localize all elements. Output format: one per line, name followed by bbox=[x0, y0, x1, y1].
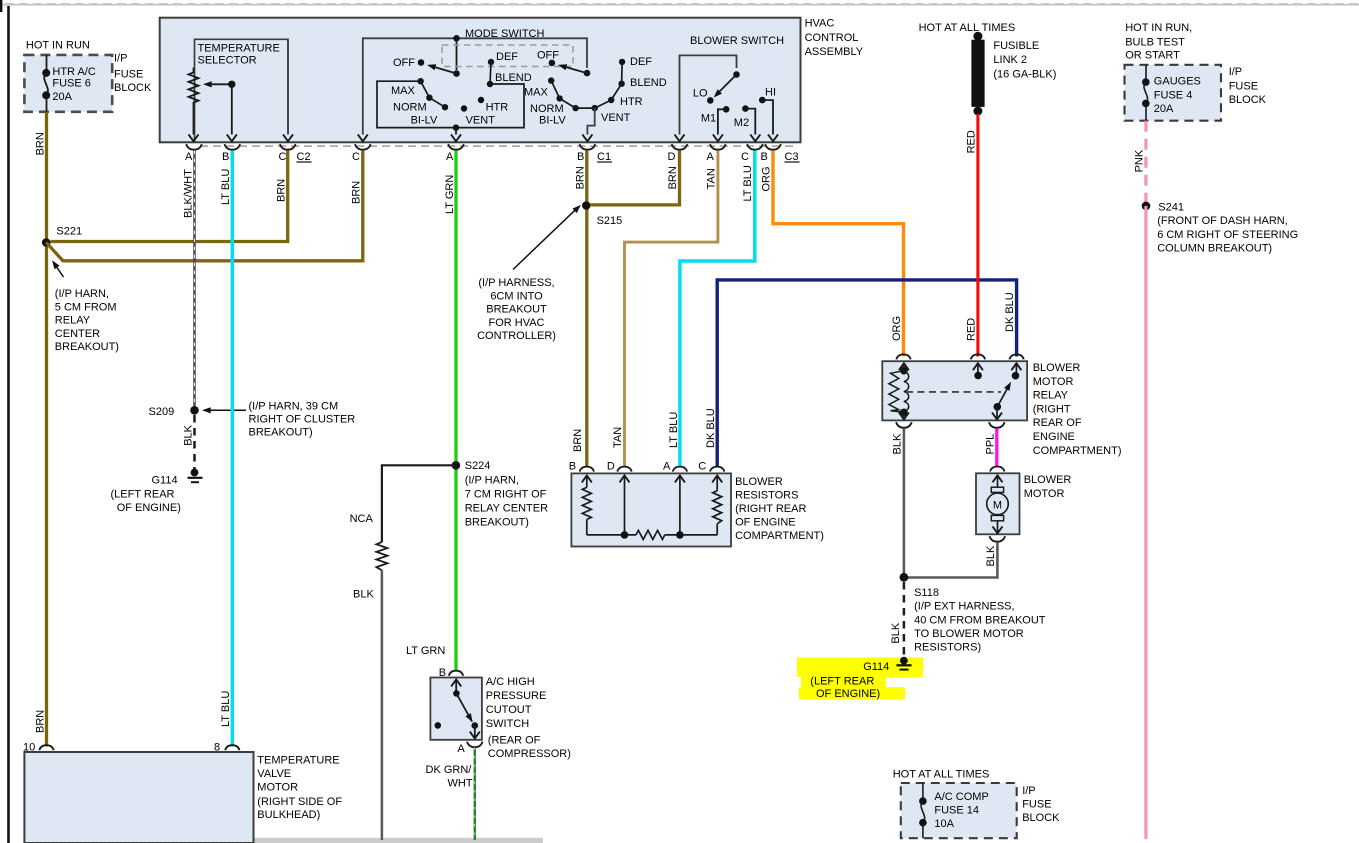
svg-text:BLEND: BLEND bbox=[495, 72, 532, 84]
svg-text:TEMPERATURE: TEMPERATURE bbox=[198, 43, 280, 55]
svg-text:(LEFT REAR: (LEFT REAR bbox=[111, 489, 175, 501]
svg-text:A: A bbox=[707, 151, 715, 163]
mode switch wafer 1 contacts bbox=[391, 78, 508, 127]
svg-text:FUSIBLE: FUSIBLE bbox=[993, 40, 1039, 52]
svg-text:LT BLU: LT BLU bbox=[742, 165, 754, 201]
wire BLK dashed S209 to G114 bbox=[193, 415, 196, 469]
svg-text:M2: M2 bbox=[734, 117, 749, 129]
svg-text:TEMPERATURE: TEMPERATURE bbox=[257, 755, 339, 767]
wire BRN S221 to pin C of C2 bbox=[51, 151, 288, 242]
svg-text:C1: C1 bbox=[597, 151, 611, 163]
svg-text:TAN: TAN bbox=[706, 168, 718, 189]
svg-text:10A: 10A bbox=[934, 818, 954, 830]
HVAC control assembly box bbox=[160, 18, 801, 143]
svg-text:TAN: TAN bbox=[612, 427, 624, 448]
splice S241 bbox=[1142, 201, 1184, 213]
fusible link caption bbox=[993, 40, 1056, 81]
svg-text:ORG: ORG bbox=[760, 166, 772, 191]
svg-text:BREAKOUT): BREAKOUT) bbox=[249, 427, 313, 439]
svg-text:PNK: PNK bbox=[1134, 149, 1146, 172]
wire ORG pin B to relay bbox=[773, 151, 904, 357]
svg-text:LT BLU: LT BLU bbox=[668, 412, 680, 448]
blower motor relay box bbox=[882, 361, 1027, 420]
ground G114 (right) bbox=[863, 657, 911, 673]
svg-text:BLK: BLK bbox=[353, 589, 374, 601]
blower motor caption bbox=[1024, 474, 1072, 500]
fuse block A/C comp dashed box bbox=[901, 783, 1017, 838]
svg-text:VALVE: VALVE bbox=[257, 768, 291, 780]
svg-text:CENTER: CENTER bbox=[55, 328, 100, 340]
connector names C2 C1 C3 bbox=[297, 151, 800, 163]
svg-text:S241: S241 bbox=[1158, 201, 1184, 213]
mode switch dashed OFF box bbox=[442, 45, 573, 67]
svg-text:G114: G114 bbox=[863, 661, 889, 673]
fuse GAUGES FUSE 4 20A bbox=[1142, 65, 1201, 121]
svg-text:MOTOR: MOTOR bbox=[1024, 488, 1065, 500]
wire LT BLU pin B down to temp valve motor bbox=[231, 151, 235, 747]
blower resistors internals bbox=[582, 476, 722, 540]
svg-text:RELAY: RELAY bbox=[55, 315, 91, 327]
S224 caption bbox=[465, 475, 548, 529]
svg-text:VENT: VENT bbox=[601, 112, 631, 124]
relay pin cups (top) bbox=[896, 354, 1024, 359]
svg-text:BLK: BLK bbox=[890, 622, 902, 643]
svg-text:M1: M1 bbox=[701, 112, 716, 124]
svg-text:CONTROL: CONTROL bbox=[805, 32, 859, 44]
svg-text:LT GRN: LT GRN bbox=[444, 175, 456, 214]
svg-text:C: C bbox=[352, 151, 360, 163]
wire BRN fuse6 down left side bbox=[45, 112, 48, 747]
S209 annotation arrow bbox=[202, 407, 246, 413]
temperature selector sub-box bbox=[195, 39, 289, 142]
label HOT IN RUN BULB TEST OR START bbox=[1125, 22, 1192, 62]
svg-text:NORM: NORM bbox=[393, 102, 427, 114]
svg-text:BULB TEST: BULB TEST bbox=[1125, 37, 1185, 49]
svg-text:RIGHT OF CLUSTER: RIGHT OF CLUSTER bbox=[249, 414, 356, 426]
svg-text:A: A bbox=[446, 151, 454, 163]
svg-text:MOTOR: MOTOR bbox=[1033, 376, 1074, 388]
temp selector right-side wire to pin C bbox=[283, 39, 293, 141]
svg-text:CUTOUT: CUTOUT bbox=[486, 704, 532, 716]
label I/P FUSE BLOCK (top right) bbox=[1229, 66, 1267, 106]
svg-text:DEF: DEF bbox=[496, 51, 518, 63]
svg-text:BI-LV: BI-LV bbox=[411, 115, 438, 127]
svg-text:BLOCK: BLOCK bbox=[1022, 812, 1060, 824]
wire BLK/WHT pin A down to S209 bbox=[193, 151, 196, 410]
svg-text:(LEFT REAR: (LEFT REAR bbox=[810, 676, 874, 688]
S241 caption bbox=[1157, 215, 1298, 255]
relay switch blade to DK BLU contact bbox=[992, 363, 1021, 419]
svg-text:BRN: BRN bbox=[351, 181, 363, 204]
S215 annotation arrow bbox=[513, 203, 583, 270]
wire PNK dashed gauges fuse to S241 bbox=[1144, 121, 1147, 202]
fuse A/C COMP FUSE 14 10A bbox=[919, 783, 989, 838]
svg-text:20A: 20A bbox=[1154, 103, 1174, 115]
wire LT BLU pin C to blower resistors pin A bbox=[680, 151, 755, 468]
svg-text:HTR: HTR bbox=[620, 96, 643, 108]
blower resistors caption bbox=[735, 476, 824, 542]
svg-text:A: A bbox=[457, 743, 465, 755]
svg-text:OR START: OR START bbox=[1125, 50, 1180, 62]
relay pin cups (bottom) bbox=[896, 422, 1004, 428]
svg-text:40 CM FROM BREAKOUT: 40 CM FROM BREAKOUT bbox=[914, 615, 1046, 627]
svg-text:C: C bbox=[698, 461, 706, 473]
temperature selector potentiometer bbox=[189, 68, 199, 142]
svg-text:6CM INTO: 6CM INTO bbox=[490, 290, 543, 302]
svg-text:DK GRN/: DK GRN/ bbox=[426, 764, 473, 776]
svg-text:A/C COMP: A/C COMP bbox=[934, 791, 988, 803]
svg-text:I/P: I/P bbox=[1022, 785, 1035, 797]
svg-text:FUSE 14: FUSE 14 bbox=[934, 805, 979, 817]
svg-text:(I/P HARN,: (I/P HARN, bbox=[55, 288, 109, 300]
svg-text:A: A bbox=[185, 151, 193, 163]
svg-text:MAX: MAX bbox=[524, 87, 549, 99]
mode switch wafer 1 pivot and OFF arm bbox=[393, 57, 460, 77]
svg-text:HOT IN RUN: HOT IN RUN bbox=[26, 39, 90, 51]
svg-text:(16 GA-BLK): (16 GA-BLK) bbox=[993, 69, 1056, 81]
svg-text:HOT AT ALL TIMES: HOT AT ALL TIMES bbox=[919, 22, 1016, 34]
splice S224 bbox=[452, 460, 491, 472]
svg-text:5 CM FROM: 5 CM FROM bbox=[55, 301, 117, 313]
svg-text:D: D bbox=[607, 461, 615, 473]
svg-text:RELAY CENTER: RELAY CENTER bbox=[465, 503, 548, 515]
S215 annotation text bbox=[477, 277, 556, 342]
wire BRN S221 to pin C of C1 bbox=[46, 151, 363, 261]
blower resistors box bbox=[571, 473, 731, 546]
svg-text:MAX: MAX bbox=[391, 85, 416, 97]
svg-text:COLUMN BREAKOUT): COLUMN BREAKOUT) bbox=[1157, 243, 1272, 255]
mode switch wafer 1 loop wire to pin A bbox=[377, 81, 524, 141]
svg-text:BLK/WHT: BLK/WHT bbox=[182, 169, 194, 218]
connector dashed line under HVAC box bbox=[200, 145, 795, 147]
svg-text:(RIGHT SIDE OF: (RIGHT SIDE OF bbox=[257, 796, 342, 808]
wire LT GRN pin A down to pressure switch bbox=[454, 151, 457, 671]
svg-text:CONTROLLER): CONTROLLER) bbox=[477, 330, 556, 342]
svg-text:BI-LV: BI-LV bbox=[539, 115, 566, 127]
svg-text:GAUGES: GAUGES bbox=[1154, 76, 1201, 88]
svg-text:MOTOR: MOTOR bbox=[257, 781, 298, 793]
wire PNK S241 to bottom bbox=[1144, 206, 1147, 839]
svg-text:BLOWER: BLOWER bbox=[735, 476, 783, 488]
svg-text:BRN: BRN bbox=[34, 710, 46, 733]
wire BLK blower motor to S118 bbox=[904, 542, 998, 577]
svg-text:BREAKOUT): BREAKOUT) bbox=[465, 516, 529, 528]
svg-text:RESISTORS): RESISTORS) bbox=[914, 641, 981, 653]
resistor NCA zigzag bbox=[376, 542, 387, 570]
svg-text:BRN: BRN bbox=[574, 166, 586, 189]
wire BLK relay to S118 bbox=[903, 428, 906, 577]
pressure switch pin A cup bbox=[457, 742, 482, 755]
svg-text:TO BLOWER MOTOR: TO BLOWER MOTOR bbox=[914, 628, 1024, 640]
wire DK GRN/WHT down to bottom bbox=[474, 748, 476, 841]
svg-text:NCA: NCA bbox=[350, 513, 374, 525]
temperature valve motor caption bbox=[257, 755, 342, 822]
splice S221 bbox=[42, 226, 82, 247]
svg-text:HVAC: HVAC bbox=[805, 18, 835, 30]
svg-text:PPL: PPL bbox=[984, 434, 996, 455]
motor M symbol bbox=[987, 475, 1009, 533]
svg-text:FUSE 4: FUSE 4 bbox=[1154, 89, 1193, 101]
svg-text:BLEND: BLEND bbox=[630, 77, 667, 89]
wire TAN pin A to blower resistors pin D bbox=[625, 151, 718, 468]
svg-text:WHT: WHT bbox=[448, 778, 473, 790]
A/C high pressure cutout switch box bbox=[430, 678, 482, 740]
pressure switch caption bbox=[486, 676, 571, 760]
svg-text:(FRONT OF DASH HARN,: (FRONT OF DASH HARN, bbox=[1157, 215, 1288, 227]
svg-text:I/P: I/P bbox=[114, 53, 127, 65]
splice S215 bbox=[582, 201, 622, 227]
svg-text:FOR HVAC: FOR HVAC bbox=[488, 317, 544, 329]
wire BRN pin B(C1) down to blower resistors bbox=[585, 151, 588, 468]
svg-text:OFF: OFF bbox=[393, 57, 415, 69]
svg-text:A: A bbox=[663, 461, 671, 473]
svg-text:ASSEMBLY: ASSEMBLY bbox=[805, 46, 864, 58]
svg-text:S215: S215 bbox=[597, 215, 623, 227]
mode switch wafer 1 DEF/BLEND contacts bbox=[487, 51, 532, 87]
svg-text:LT BLU: LT BLU bbox=[220, 169, 232, 205]
relay common from RED bbox=[973, 363, 983, 379]
svg-text:10: 10 bbox=[23, 741, 35, 753]
svg-text:BRN: BRN bbox=[572, 429, 584, 452]
temp valve motor pin cups bbox=[23, 741, 240, 753]
svg-text:S224: S224 bbox=[465, 460, 491, 472]
svg-text:(I/P EXT HARNESS,: (I/P EXT HARNESS, bbox=[914, 601, 1014, 613]
svg-text:BREAKOUT: BREAKOUT bbox=[486, 304, 547, 316]
pressure switch pin B cup bbox=[439, 667, 463, 679]
svg-text:C3: C3 bbox=[785, 151, 799, 163]
svg-text:BLOWER SWITCH: BLOWER SWITCH bbox=[690, 35, 784, 47]
svg-text:HOT AT ALL TIMES: HOT AT ALL TIMES bbox=[893, 768, 990, 780]
splice S118 bbox=[900, 573, 939, 599]
svg-text:C2: C2 bbox=[297, 151, 311, 163]
svg-text:REAR OF: REAR OF bbox=[1033, 417, 1082, 429]
G114 (left) caption bbox=[111, 489, 181, 514]
HVAC pin letters bbox=[185, 151, 768, 163]
svg-text:HTR: HTR bbox=[486, 102, 509, 114]
temperature selector wiper bbox=[203, 81, 237, 142]
svg-text:COMPARTMENT): COMPARTMENT) bbox=[735, 530, 824, 542]
svg-text:SWITCH: SWITCH bbox=[486, 718, 529, 730]
svg-text:COMPRESSOR): COMPRESSOR) bbox=[488, 748, 571, 760]
relay coil bbox=[889, 363, 909, 419]
svg-text:C: C bbox=[279, 151, 287, 163]
mode switch wafer 2 pivot and OFF arm bbox=[537, 50, 590, 77]
svg-text:BLK: BLK bbox=[985, 545, 997, 566]
svg-text:(I/P HARNESS,: (I/P HARNESS, bbox=[478, 277, 554, 289]
svg-text:G114: G114 bbox=[152, 475, 178, 487]
S221 annotation text bbox=[55, 288, 119, 353]
svg-text:BRN: BRN bbox=[34, 132, 46, 155]
svg-text:RESISTORS: RESISTORS bbox=[735, 489, 798, 501]
wire BLK NCA resistor to bottom bbox=[381, 570, 384, 840]
blower switch pivot arm bbox=[693, 71, 740, 104]
svg-text:PRESSURE: PRESSURE bbox=[486, 690, 547, 702]
svg-text:HI: HI bbox=[765, 87, 776, 99]
wire BRN pin D to S215 bbox=[590, 151, 680, 205]
svg-text:S221: S221 bbox=[56, 226, 82, 238]
svg-text:I/P: I/P bbox=[1229, 66, 1242, 78]
svg-text:OFF: OFF bbox=[537, 50, 559, 62]
svg-text:OF ENGINE): OF ENGINE) bbox=[816, 688, 880, 700]
svg-text:M: M bbox=[993, 499, 1002, 511]
svg-text:SELECTOR: SELECTOR bbox=[198, 55, 257, 67]
wire PPL relay to blower motor bbox=[995, 428, 998, 467]
svg-text:B: B bbox=[577, 151, 584, 163]
blower switch M2 contact to pin C bbox=[734, 105, 761, 141]
svg-text:B: B bbox=[761, 151, 768, 163]
pressure switch contacts bbox=[435, 680, 480, 739]
svg-text:LT GRN: LT GRN bbox=[406, 645, 445, 657]
svg-text:(RIGHT REAR: (RIGHT REAR bbox=[735, 503, 806, 515]
svg-text:DEF: DEF bbox=[630, 56, 652, 68]
svg-text:FUSE: FUSE bbox=[1022, 799, 1051, 811]
svg-text:B: B bbox=[439, 667, 446, 679]
svg-text:FUSE: FUSE bbox=[114, 68, 143, 80]
svg-text:LINK 2: LINK 2 bbox=[993, 54, 1027, 66]
svg-text:BLOWER: BLOWER bbox=[1024, 474, 1072, 486]
svg-text:(I/P HARN, 39 CM: (I/P HARN, 39 CM bbox=[249, 400, 339, 412]
wire DK BLU relay to blower resistors pin C bbox=[717, 280, 1016, 467]
svg-text:8: 8 bbox=[214, 741, 220, 753]
fusible link 2 bbox=[971, 32, 984, 116]
svg-text:DK BLU: DK BLU bbox=[705, 408, 717, 448]
blower motor relay caption bbox=[1033, 362, 1122, 457]
svg-text:HTR A/C: HTR A/C bbox=[52, 66, 95, 78]
svg-text:S118: S118 bbox=[914, 587, 939, 599]
svg-text:S209: S209 bbox=[149, 406, 175, 418]
svg-text:B: B bbox=[222, 151, 229, 163]
svg-text:BLK: BLK bbox=[892, 433, 904, 454]
svg-text:7 CM RIGHT OF: 7 CM RIGHT OF bbox=[465, 488, 547, 500]
svg-text:OF ENGINE): OF ENGINE) bbox=[117, 502, 181, 514]
page top torn edge bbox=[0, 2, 1359, 5]
svg-text:FUSE 6: FUSE 6 bbox=[52, 77, 91, 89]
svg-text:A/C HIGH: A/C HIGH bbox=[486, 676, 535, 688]
svg-text:LO: LO bbox=[693, 88, 708, 100]
svg-text:ENGINE: ENGINE bbox=[1033, 431, 1075, 443]
svg-text:(I/P HARN,: (I/P HARN, bbox=[465, 475, 519, 487]
svg-text:COMPARTMENT): COMPARTMENT) bbox=[1033, 445, 1122, 457]
svg-text:BLOCK: BLOCK bbox=[114, 82, 152, 94]
svg-text:FUSE: FUSE bbox=[1229, 81, 1258, 93]
svg-text:20A: 20A bbox=[52, 91, 72, 103]
label I/P FUSE BLOCK (left) bbox=[114, 53, 152, 94]
S118 caption bbox=[914, 601, 1046, 654]
blower motor box bbox=[976, 473, 1020, 534]
svg-text:C: C bbox=[741, 151, 749, 163]
svg-text:NORM: NORM bbox=[530, 103, 564, 115]
svg-text:OF ENGINE: OF ENGINE bbox=[735, 516, 796, 528]
HVAC connector cups bbox=[186, 144, 781, 150]
svg-text:BRN: BRN bbox=[276, 179, 288, 202]
svg-text:BREAKOUT): BREAKOUT) bbox=[55, 341, 119, 353]
blower motor pin cup (top) bbox=[990, 467, 1004, 472]
ground G114 (left) bbox=[152, 469, 203, 487]
svg-text:DK BLU: DK BLU bbox=[1004, 292, 1016, 332]
mode switch common rail bbox=[358, 35, 587, 141]
relay actuation dashed link bbox=[906, 391, 1001, 393]
blower switch HI contact to pin B bbox=[759, 87, 778, 142]
page bottom gray bar bbox=[243, 838, 543, 843]
svg-text:VENT: VENT bbox=[466, 115, 496, 127]
G114 (right) caption bbox=[810, 676, 880, 701]
svg-text:HOT IN RUN,: HOT IN RUN, bbox=[1125, 22, 1192, 34]
svg-text:BLOCK: BLOCK bbox=[1229, 94, 1267, 106]
svg-text:RED: RED bbox=[966, 130, 978, 153]
S221 annotation arrow bbox=[49, 259, 63, 277]
blower motor pin cup (bottom) bbox=[990, 536, 1006, 542]
S209 annotation text bbox=[249, 400, 356, 438]
svg-text:(RIGHT: (RIGHT bbox=[1033, 403, 1071, 415]
svg-text:RELAY: RELAY bbox=[1033, 390, 1069, 402]
blower switch feed wire from pin D bbox=[675, 55, 737, 141]
svg-text:BLK: BLK bbox=[182, 424, 194, 445]
mode switch wafer 2 contact arc bbox=[524, 56, 667, 127]
label I/P FUSE BLOCK (bottom right) bbox=[1022, 785, 1060, 824]
svg-text:B: B bbox=[569, 461, 576, 473]
wire RED fusible link to relay bbox=[976, 114, 979, 357]
label HVAC CONTROL ASSEMBLY bbox=[805, 18, 864, 58]
svg-text:BRN: BRN bbox=[667, 166, 679, 189]
temperature valve motor box bbox=[24, 752, 253, 843]
svg-text:D: D bbox=[668, 151, 676, 163]
page left border bbox=[1, 0, 8, 843]
blower switch M1 contact to pin A bbox=[701, 106, 730, 141]
yellow highlight bbox=[797, 658, 923, 700]
wire BLK dashed S118 to G114 bbox=[903, 582, 906, 657]
svg-text:(REAR OF: (REAR OF bbox=[488, 735, 541, 747]
splice S209 bbox=[149, 406, 199, 418]
svg-text:BLOWER: BLOWER bbox=[1033, 362, 1081, 374]
mode switch wafer 2 VENT tap to pin B bbox=[582, 108, 594, 141]
svg-text:RED: RED bbox=[966, 318, 978, 341]
label DK GRN/WHT bbox=[426, 764, 473, 790]
fuse block gauges dashed box bbox=[1125, 65, 1222, 121]
wire NCA from S224 bbox=[382, 465, 456, 542]
svg-text:6 CM RIGHT OF STEERING: 6 CM RIGHT OF STEERING bbox=[1157, 229, 1298, 241]
blower resistors pin cups and letters bbox=[569, 461, 725, 473]
fuse block F6 dashed box bbox=[24, 55, 112, 112]
svg-text:LT BLU: LT BLU bbox=[220, 691, 232, 727]
fuse HTR A/C FUSE 6 20A bbox=[42, 55, 96, 112]
svg-text:BULKHEAD): BULKHEAD) bbox=[257, 809, 320, 821]
svg-text:ORG: ORG bbox=[891, 316, 903, 341]
